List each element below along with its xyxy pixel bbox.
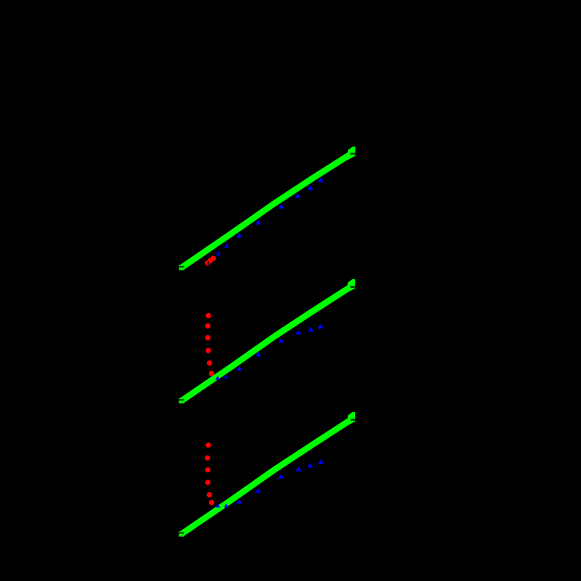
dark dash over left square (top panel) xyxy=(179,266,184,267)
red data points column (bottom panel) xyxy=(205,442,215,505)
dark dash at right tip (middle panel) xyxy=(350,286,355,288)
green square marker, left end (top panel) xyxy=(179,265,184,270)
green tip cap, right end (top panel) xyxy=(348,147,355,160)
green tip cap, right end (middle panel) xyxy=(348,279,355,292)
dark dash at right tip (bottom panel) xyxy=(351,419,355,421)
red data points column (middle panel) xyxy=(205,313,214,376)
dark dash over left square (middle panel) xyxy=(179,399,184,400)
dark dash at right tip (top panel) xyxy=(350,153,355,155)
dark error bar over red point (top panel) xyxy=(208,261,209,265)
blue triangle markers (bottom panel) xyxy=(216,459,324,507)
green square marker, left end (bottom panel) xyxy=(179,531,184,536)
green model curve (top panel) xyxy=(182,153,352,267)
blue triangle markers (middle panel) xyxy=(215,324,323,380)
red data points (top panel) xyxy=(205,256,216,266)
green tip cap, right end (bottom panel) xyxy=(348,412,355,425)
blue triangle markers (top panel) xyxy=(216,178,323,256)
green model curve (middle panel) xyxy=(182,286,352,401)
green square marker, left end (middle panel) xyxy=(179,398,184,403)
dark dash over left square (bottom panel) xyxy=(179,532,184,533)
green model curve (bottom panel) xyxy=(182,419,352,534)
